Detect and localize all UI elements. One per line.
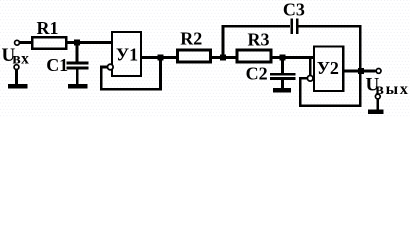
svg-text:C2: C2 <box>246 64 268 84</box>
svg-text:R1: R1 <box>37 18 59 38</box>
svg-text:R2: R2 <box>180 29 202 49</box>
svg-text:C3: C3 <box>283 0 305 19</box>
svg-text:C1: C1 <box>46 55 68 75</box>
svg-text:вх: вх <box>12 50 29 67</box>
svg-text:У1: У1 <box>116 45 138 65</box>
svg-text:У2: У2 <box>317 58 339 78</box>
svg-text:вых: вых <box>375 81 410 98</box>
svg-text:R3: R3 <box>248 29 270 49</box>
